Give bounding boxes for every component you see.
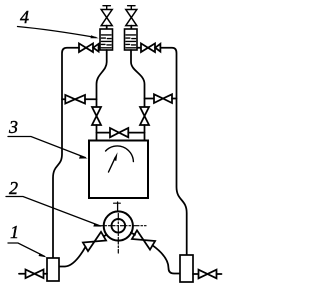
wire: downpipe from F1 (97, 50, 107, 107)
horizontal centerline of unit 2 (97, 225, 147, 227)
valve V3 (left of F1) (79, 43, 100, 52)
gauge needle (109, 157, 116, 172)
centerline below gauge (114, 202, 121, 204)
wire: downpipe from F2 (131, 50, 145, 107)
valve V11 (right slanted) (132, 230, 155, 249)
valve V9 (equalizing, horizontal) (97, 128, 145, 137)
wire: curve to tank B1 (59, 247, 86, 267)
valve V7 (left vertical) (92, 107, 101, 141)
leader line to gauge (8, 137, 86, 158)
unit 2 (three-way cock, circle) (104, 211, 133, 240)
wire: V11 to unit 2 (131, 233, 135, 235)
vent valve V1 (top left) (101, 6, 112, 29)
valve V12 (left drain) (19, 270, 47, 279)
svg-text:2: 2 (9, 178, 18, 198)
valve V8 (right vertical) (140, 107, 149, 141)
svg-text:4: 4 (20, 7, 29, 27)
valve V4 (right of F2) (137, 43, 160, 52)
wire: right outer pipe from V4 down to tank B2 (160, 48, 186, 255)
wire: V10 to unit 2 (104, 235, 107, 237)
wire: curve to tank B2 (153, 245, 181, 273)
leader line to filter F1 (18, 27, 97, 38)
valve V5 (left branch) (62, 95, 97, 104)
gauge U1 (differential pressure gauge box) (89, 141, 148, 199)
gauge scale arc (106, 146, 134, 162)
svg-text:3: 3 (8, 117, 18, 137)
leader line to unit 2 (6, 197, 100, 226)
filter F2 (right, hatched) (125, 29, 138, 50)
tank B1 (bottom left) (47, 258, 59, 281)
valve V6 (right branch) (145, 94, 177, 103)
wire: left outer pipe from V3 down to tank B1 (53, 48, 79, 258)
svg-text:1: 1 (10, 222, 19, 242)
valve V13 (right drain) (193, 270, 222, 279)
vent valve V2 (top right) (126, 6, 137, 29)
leader line to tank B1 (8, 243, 45, 256)
valve V10 (left slanted) (83, 232, 106, 251)
filter F1 (left, hatched) (100, 29, 113, 50)
tank B2 (bottom right) (180, 255, 193, 282)
